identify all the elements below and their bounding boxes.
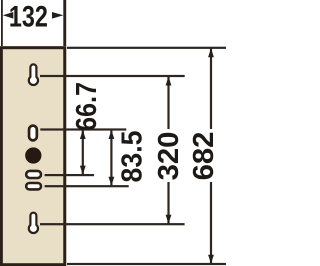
svg-text:320: 320: [153, 132, 185, 181]
svg-text:83.5: 83.5: [115, 131, 147, 183]
svg-text:66.7: 66.7: [69, 82, 102, 131]
svg-text:132: 132: [9, 0, 48, 33]
svg-text:682: 682: [188, 132, 220, 181]
